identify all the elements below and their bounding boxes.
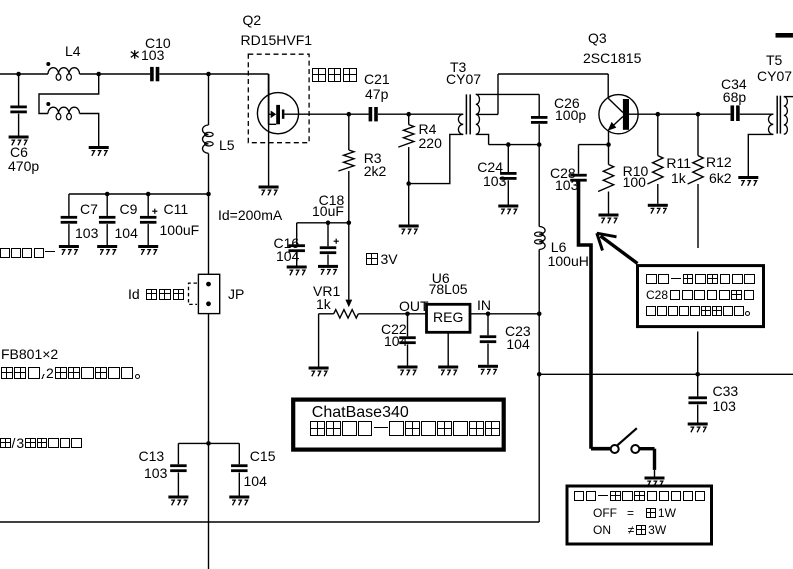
label approx 3V bbox=[366, 253, 398, 265]
label R4 value bbox=[419, 136, 442, 150]
label C7 bbox=[80, 202, 98, 216]
wire C13-C15 rail bbox=[178, 442, 239, 444]
node C33 junction bbox=[695, 372, 700, 377]
label Id measurement bbox=[128, 289, 184, 301]
phase dot L4 primary bbox=[46, 62, 50, 66]
wire C13 branch bbox=[177, 443, 179, 464]
label C21 value bbox=[365, 87, 388, 101]
wire L6 rail lower bbox=[538, 314, 540, 375]
transistor Q2 drain contact bar bbox=[282, 110, 285, 119]
wire to R3 bbox=[348, 114, 350, 150]
wire C10 to Q2 gate bbox=[159, 73, 268, 75]
capacitor C6 470p bbox=[10, 106, 27, 114]
label C10 value bbox=[141, 48, 164, 62]
wire L4 secondary to ground bbox=[80, 114, 99, 147]
transistor Q2 arrow bbox=[271, 111, 277, 119]
label katakana condenser bbox=[0, 248, 55, 258]
ground C11 bbox=[138, 245, 158, 255]
label REG bbox=[433, 310, 463, 324]
title text switching method bbox=[310, 421, 500, 436]
transformer T3 secondary winding bbox=[476, 94, 480, 134]
label C6 value bbox=[8, 159, 39, 173]
label R12 bbox=[706, 155, 732, 169]
wire Q3 base to C34 bbox=[629, 113, 730, 115]
label C6 bbox=[10, 145, 28, 159]
wire C22 branch bbox=[407, 314, 409, 337]
thick bar top-right (clipped element) bbox=[776, 33, 793, 38]
node L5 junction bbox=[206, 72, 211, 77]
wire C11 to ground bbox=[147, 224, 149, 245]
note text OFF value bbox=[593, 508, 676, 518]
wire C7 to ground bbox=[68, 224, 70, 245]
label JP bbox=[228, 287, 244, 301]
wire to L5 bbox=[208, 74, 210, 125]
regulator U6 78L05 box bbox=[427, 304, 471, 332]
resistor R10 100 bbox=[598, 165, 614, 192]
node C18 junction bbox=[326, 221, 331, 226]
wire C16 to ground bbox=[296, 253, 298, 266]
label C24 value bbox=[483, 174, 506, 188]
node R4/T3 return junction bbox=[406, 181, 411, 186]
wire C15 to ground bbox=[238, 473, 240, 496]
wire C16 branch bbox=[296, 223, 298, 245]
wire R4 lower bbox=[408, 147, 410, 184]
wire C18 branch bbox=[327, 223, 329, 247]
capacitor C23 104 bbox=[480, 335, 497, 343]
node supply rail junction bbox=[537, 372, 542, 377]
label C33 bbox=[713, 384, 739, 398]
label C23 value bbox=[506, 337, 529, 351]
wire to R4 bbox=[408, 114, 410, 124]
label R4 bbox=[419, 122, 437, 136]
ground T5 bbox=[738, 176, 758, 186]
label R12 value bbox=[709, 171, 732, 185]
node R3/C18 junction bbox=[347, 221, 352, 226]
label RD15HVF1 bbox=[241, 33, 313, 47]
resistor R3 2k2 bbox=[338, 150, 354, 171]
wire Q2 source bbox=[269, 124, 277, 185]
asterisk mark C10 bbox=[131, 50, 139, 59]
transistor Q3 emitter arrow bbox=[608, 122, 617, 131]
wire to JP jumper bbox=[208, 194, 210, 274]
label R3 bbox=[364, 151, 382, 165]
label IN bbox=[477, 298, 491, 312]
label heatsink bbox=[312, 68, 357, 82]
wire REG gnd pin bbox=[447, 332, 449, 365]
label R11 value bbox=[671, 171, 686, 185]
label C33 value bbox=[713, 399, 736, 413]
title box ChatBase340 bbox=[293, 400, 504, 450]
capacitor C18 10uF bbox=[320, 246, 337, 254]
wire C23 branch bbox=[487, 314, 489, 336]
ground C23 bbox=[478, 365, 498, 375]
ground C33 bbox=[688, 423, 708, 433]
label C26 bbox=[554, 96, 580, 110]
wire switch to ground lead bbox=[640, 447, 655, 450]
label C21 bbox=[364, 72, 390, 86]
node input junction C6 bbox=[16, 72, 21, 77]
ground L4 secondary bbox=[89, 146, 109, 156]
wire L6 to REG IN rail bbox=[538, 250, 540, 314]
label L6 bbox=[551, 240, 567, 254]
wire bypass rail bbox=[69, 193, 209, 195]
capacitor C7 103 bbox=[61, 216, 78, 224]
node R11 junction bbox=[656, 112, 661, 117]
switch throw contact bbox=[631, 445, 639, 453]
label C9 bbox=[120, 202, 138, 216]
note text ON value bbox=[593, 525, 666, 535]
resistor R12 6k2 bbox=[688, 156, 704, 184]
capacitor C10 103 bbox=[150, 67, 159, 81]
ground switch bbox=[645, 477, 665, 487]
node L4 output junction bbox=[96, 72, 101, 77]
wire C11 branch bbox=[147, 194, 149, 216]
ground C22 bbox=[398, 366, 418, 376]
arrow annotation to C28 trace bbox=[597, 233, 638, 263]
wire C15 branch bbox=[238, 443, 240, 464]
inductor L4 secondary winding bbox=[48, 107, 80, 120]
ground R11 bbox=[648, 204, 668, 214]
label C22 value bbox=[384, 334, 407, 348]
wire T3 center tap bbox=[476, 113, 498, 115]
wire C28 to Q3 emitter bbox=[579, 144, 609, 146]
capacitor C16 104 bbox=[288, 244, 305, 252]
wire R3 to C18 rail bbox=[348, 171, 350, 223]
wire L6 top bbox=[538, 145, 540, 227]
label Q2 bbox=[243, 13, 262, 27]
capacitor C9 104 bbox=[99, 216, 116, 224]
wire Q3 emitter diagonal bbox=[611, 117, 623, 128]
label T3 type bbox=[446, 72, 481, 86]
label C18 bbox=[319, 193, 345, 207]
node C13/C15 junction bbox=[206, 441, 211, 446]
ground R4 bbox=[399, 225, 419, 235]
label C22 bbox=[381, 322, 407, 336]
transformer T5 core bbox=[777, 96, 780, 134]
wire rail to bottom bbox=[538, 374, 540, 522]
capacitor C11 100uF bbox=[140, 216, 157, 224]
label L6 value bbox=[548, 254, 589, 268]
label C26 value bbox=[555, 108, 586, 122]
wire bold to switch bbox=[591, 447, 610, 451]
wire tap riser bbox=[497, 74, 499, 114]
label C11 value bbox=[160, 223, 200, 237]
wire supply to Q3 collector bbox=[498, 73, 608, 75]
wire Q3 emitter bbox=[608, 130, 610, 145]
wire bottom rail bbox=[0, 521, 539, 523]
wire bold power switch trace bbox=[579, 181, 592, 448]
wire T5 secondary top bbox=[784, 96, 793, 98]
label C16 value bbox=[276, 249, 299, 263]
capacitor C24 103 bbox=[500, 172, 517, 180]
note box power switch wiring bbox=[638, 266, 764, 327]
label VR1 value bbox=[316, 297, 331, 311]
label U6 bbox=[432, 271, 450, 285]
transistor Q3 base bar bbox=[623, 99, 629, 130]
ground R10 bbox=[599, 214, 619, 224]
ground C15 bbox=[229, 496, 249, 506]
transistor Q3 2SC1815 body bbox=[599, 95, 638, 134]
wire T5 primary return bbox=[748, 134, 773, 176]
wire R12 lower bbox=[697, 184, 699, 248]
wire T3 secondary bottom bbox=[476, 134, 489, 144]
label C9 value bbox=[115, 226, 138, 240]
wire R4 to ground bbox=[408, 184, 410, 225]
wire C26 bottom bbox=[538, 124, 540, 144]
resistor R4 220 bbox=[398, 125, 414, 148]
wire C33 branch bbox=[697, 374, 699, 396]
ground Q2 source bbox=[259, 186, 279, 196]
transformer T5 primary winding bbox=[769, 114, 774, 134]
wire VR1 to REG OUT bbox=[358, 313, 426, 315]
wire T3 primary return bbox=[409, 134, 464, 183]
label T3 bbox=[450, 60, 466, 74]
inductor L6 100uH bbox=[535, 227, 546, 250]
note text power switching line3 bbox=[646, 306, 750, 316]
wire supply rail right bbox=[539, 373, 793, 375]
wire Q3 collector diagonal bbox=[608, 98, 623, 112]
wire C22 to ground bbox=[407, 345, 409, 366]
transformer T3 primary winding bbox=[458, 114, 463, 134]
plus mark C18 bbox=[334, 239, 339, 244]
capacitor C21 47p bbox=[369, 107, 378, 121]
label C13 value bbox=[144, 466, 167, 480]
capacitor C28 103 bbox=[570, 174, 587, 182]
wire C13 to ground bbox=[177, 473, 179, 496]
wire to R11 bbox=[657, 114, 659, 155]
ground C13 bbox=[168, 496, 188, 506]
wire C24 branch bbox=[507, 145, 509, 172]
label R10 value bbox=[623, 175, 646, 189]
wire C6 branch bbox=[18, 74, 20, 106]
wire C34 to T5 bbox=[740, 113, 774, 115]
plus mark C11 bbox=[152, 209, 157, 214]
transistor Q2 channel bar bbox=[276, 105, 280, 124]
label C15 bbox=[250, 449, 276, 463]
label C16 bbox=[274, 236, 300, 250]
label OUT bbox=[399, 299, 429, 313]
wire T3 secondary top to C26 bbox=[476, 93, 539, 95]
node bypass junction L5 bbox=[206, 192, 211, 197]
label C34 value bbox=[723, 90, 746, 104]
label C24 bbox=[477, 160, 503, 174]
node L6/REG junction bbox=[537, 312, 542, 317]
wire C6 to ground bbox=[18, 114, 20, 136]
node bypass junction C11 bbox=[146, 192, 151, 197]
wire Q2 arrow tick bbox=[269, 113, 271, 115]
wire L4 secondary feed bbox=[39, 74, 99, 114]
ground C18 bbox=[318, 265, 338, 275]
label C28 value bbox=[555, 178, 578, 192]
label rewinding note bbox=[0, 438, 82, 449]
label R10 bbox=[623, 164, 649, 178]
ground VR1 bbox=[309, 367, 329, 377]
wire C9 to ground bbox=[106, 224, 108, 245]
wire input to L4 bbox=[0, 73, 48, 75]
wire C7 branch bbox=[68, 194, 70, 216]
ground REG bbox=[438, 366, 458, 376]
wire Q3 collector riser bbox=[607, 74, 609, 98]
phase dot L4 secondary bbox=[46, 102, 50, 106]
wire JP to C13 junction bbox=[208, 314, 210, 444]
node C26/L6 junction bbox=[537, 142, 542, 147]
wire Q2 drain bbox=[284, 113, 348, 115]
wire lower rail left segment bbox=[489, 144, 540, 146]
node bypass junction C9 bbox=[105, 192, 110, 197]
ground C24 bbox=[498, 205, 518, 215]
wire R3 to C21 bbox=[349, 113, 369, 115]
label Id=200mA bbox=[218, 208, 282, 222]
transformer T3 core bbox=[466, 94, 470, 134]
arrow VR1 wiper bbox=[345, 300, 352, 308]
label C11 bbox=[164, 202, 189, 216]
wire C18 to ground bbox=[327, 255, 329, 265]
wire R10 to ground bbox=[608, 192, 610, 214]
wire C28 top bbox=[578, 145, 580, 174]
capacitor C26 100p bbox=[531, 116, 548, 124]
label C7 value bbox=[75, 226, 98, 240]
node R4 junction bbox=[406, 112, 411, 117]
label Q3 type bbox=[583, 51, 641, 65]
capacitor C13 103 bbox=[170, 464, 187, 472]
capacitor C34 68p bbox=[731, 105, 740, 121]
node Q3 emitter junction bbox=[606, 142, 611, 147]
label T5 bbox=[766, 53, 782, 67]
wire C21 to R4 bbox=[378, 113, 409, 115]
node C23 junction bbox=[486, 312, 491, 317]
capacitor C15 104 bbox=[231, 464, 248, 472]
jumper JP pin 1 bbox=[206, 282, 211, 287]
wire to T3 primary bbox=[409, 113, 464, 115]
label Q3 bbox=[588, 31, 607, 45]
label R11 bbox=[666, 156, 691, 170]
wire C9 branch bbox=[106, 194, 108, 216]
label VR1 bbox=[313, 284, 340, 298]
resistor R11 1k bbox=[647, 156, 663, 184]
wire switch ground drop bbox=[653, 449, 656, 470]
potentiometer VR1 1k bbox=[334, 310, 359, 318]
wire Q2 gate bbox=[268, 74, 270, 124]
label T5 type bbox=[757, 69, 792, 83]
wire switch ground thin bbox=[654, 470, 656, 477]
label 78L05 bbox=[429, 282, 468, 296]
ground C9 bbox=[97, 245, 117, 255]
wire VR1 to ground bbox=[318, 314, 320, 367]
wire C18 rail bbox=[297, 222, 349, 224]
note box power switch spec bbox=[567, 486, 712, 544]
jumper JP pin 2 bbox=[206, 301, 211, 306]
label R3 value bbox=[364, 164, 387, 178]
label L4 bbox=[65, 44, 81, 58]
capacitor C33 103 bbox=[688, 396, 707, 404]
node C22 junction bbox=[405, 312, 410, 317]
wire C24 to ground bbox=[507, 180, 509, 204]
wire R12 resume to rail bbox=[697, 332, 699, 375]
wire R11 to ground bbox=[657, 184, 659, 204]
wire L5 to bypass rail bbox=[208, 154, 210, 195]
label FB801x2 bbox=[1, 347, 58, 361]
node R3 junction bbox=[347, 112, 352, 117]
wire REG IN bbox=[470, 313, 539, 315]
label C23 bbox=[505, 324, 531, 338]
ground C7 bbox=[59, 245, 79, 255]
wire bus to bottom edge bbox=[208, 443, 210, 569]
label C28 bbox=[550, 166, 576, 180]
dashed bracket Id measurement bbox=[189, 283, 198, 304]
label winding note line bbox=[1, 367, 140, 379]
label C10 bbox=[145, 36, 171, 50]
wire C26 top bbox=[538, 94, 540, 116]
inductor L5 bbox=[203, 125, 214, 153]
label L5 bbox=[219, 138, 235, 152]
ground C6 bbox=[9, 136, 29, 146]
label C13 bbox=[139, 449, 165, 463]
wire R3 to VR1 wiper bbox=[348, 223, 350, 300]
title text ChatBase340 bbox=[312, 405, 409, 421]
ground C16 bbox=[287, 266, 307, 276]
wire to R10 bbox=[608, 145, 610, 165]
node C24 junction bbox=[506, 142, 511, 147]
note text switch title bbox=[574, 491, 705, 501]
label C18 value bbox=[312, 204, 344, 218]
inductor L4 primary winding bbox=[48, 68, 80, 81]
wire to R12 bbox=[697, 114, 699, 155]
note text power switching line2 bbox=[646, 290, 754, 301]
jumper JP box bbox=[198, 274, 219, 313]
wire C33 to ground bbox=[697, 405, 699, 423]
transformer T5 secondary winding bbox=[784, 97, 788, 135]
capacitor C22 104 bbox=[399, 336, 416, 344]
label C15 value bbox=[244, 474, 267, 488]
note text power switching line1 bbox=[646, 274, 755, 285]
wire L4 to C10 bbox=[80, 73, 151, 75]
switch pole contact bbox=[611, 445, 619, 453]
wire C23 to ground bbox=[487, 344, 489, 365]
label C34 bbox=[721, 77, 747, 91]
node R12 junction bbox=[696, 112, 701, 117]
transistor Q2 RD15HVF1 body bbox=[257, 93, 298, 134]
wire VR1 left bbox=[319, 313, 334, 315]
switch lever bbox=[618, 428, 637, 445]
dashed outline Q2 heatsink box bbox=[248, 54, 309, 143]
